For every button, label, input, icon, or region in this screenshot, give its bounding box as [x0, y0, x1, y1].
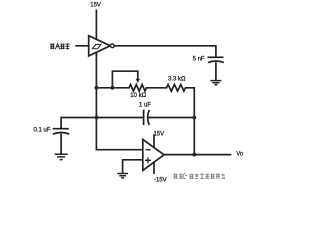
svg-text:15V: 15V — [153, 131, 164, 137]
svg-text:0.1 uF: 0.1 uF — [33, 128, 50, 134]
svg-text:5 nF: 5 nF — [193, 57, 205, 63]
svg-text:10 kΩ: 10 kΩ — [130, 93, 146, 99]
svg-text:15V: 15V — [90, 3, 101, 9]
svg-text:3.3 kΩ: 3.3 kΩ — [168, 77, 186, 83]
svg-text:-15V: -15V — [154, 177, 167, 183]
svg-text:Vo: Vo — [236, 151, 244, 157]
svg-text:1 uF: 1 uF — [139, 103, 151, 109]
